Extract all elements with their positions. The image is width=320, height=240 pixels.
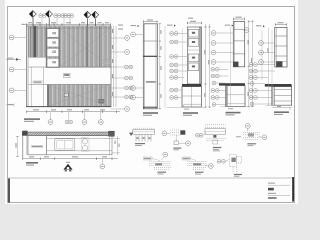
recessed box in lower hatch [99,99,104,103]
left callout circle 3 [9,88,14,93]
plan right dim string [112,138,120,140]
plan wall hatch band [22,132,112,136]
right leader lines and callouts of elevation [111,38,124,109]
section3 title [226,112,241,114]
dimension text smudges [22,22,110,25]
elevation bottom dimension line [26,111,120,113]
detail 5 counter edge detail [143,152,171,174]
section2 top dim [187,22,202,24]
drawer box 4 [47,58,59,67]
callout circle pair A [39,14,43,18]
title strip divider [8,177,295,179]
elevation title text [24,118,40,120]
elevation body outline [26,26,111,107]
callout circle pair D [67,14,71,18]
sheet number A-XX [268,188,274,191]
sink [55,139,75,151]
section2 left boundary line [164,26,166,108]
top dimension line [24,24,111,26]
elevation marker diamond 4 [92,11,99,26]
bottom callout circles row [48,120,53,125]
wall end block left [22,131,27,136]
diagonal brace lines [60,28,111,67]
section4 top-left callout [244,28,249,33]
level marker left of section4 [256,25,265,27]
elevation marker diamond 2 [46,11,53,26]
upper-left hatch panel [29,28,46,57]
section3 left callouts [211,31,216,36]
refrigerator box [28,136,47,155]
section2 floor line [167,106,205,108]
left callout circle 1 [9,35,14,40]
section3 tall cabinet [233,22,244,67]
callout circle pair B [54,14,58,18]
upper-right hatch panel [60,28,111,67]
level marker left of section2 [167,25,176,27]
section2 title [183,112,198,114]
drawer column [46,28,60,68]
faint fixtures in band [64,74,71,78]
wall end block right [109,131,115,136]
title block field line 1 [268,183,275,184]
counter label smudge [33,81,42,83]
section4 left boundary [261,30,263,80]
section4 tall cabinet [275,27,287,67]
section2 base cabinet [182,87,202,107]
section4 base cabinet drawers [272,87,292,106]
section3 base cabinet [226,86,245,107]
section4 title [274,111,289,113]
left callout circle 2 [9,67,14,72]
elevation bottom edge [26,106,111,108]
middle band lines [29,66,111,68]
plan title text [26,162,38,164]
plan bottom dimension [23,158,118,160]
drawer box 3 [47,48,59,57]
cooktop burners [82,139,87,144]
section3 right dim strings [248,20,250,107]
left margin level marker [6,58,21,60]
outlet box [64,93,68,96]
elevation marker diamond 1 [29,11,36,26]
section2 upper cabinet [187,27,201,84]
title block field line 2 [268,193,276,194]
level marker left of section1 [131,25,140,27]
section4 vertical dim between 3 and 4 [268,28,270,105]
section1 right dim string [159,24,161,109]
section3 counter band [219,83,245,85]
detail 3 shelf detail [196,125,226,151]
sheet [5,0,298,204]
fridge enclosure side wall [22,136,24,158]
counter lines [47,137,112,139]
sheet border [8,7,295,203]
section2 upper boxes [188,29,199,37]
plan callout circle [100,164,105,169]
section2 left callout pairs [170,32,174,36]
drawer box 2 [47,38,59,47]
scale text [268,197,277,199]
detail 1 sill detail [129,128,155,146]
drawing title bubble [63,162,72,172]
title strip left bar [8,179,10,203]
section3 top dim [233,18,245,20]
section4 right dim [289,107,291,110]
right callout circles [125,36,130,41]
section1 title [143,112,158,114]
lower hatch panel [47,85,111,107]
section1 tall cabinet [143,24,157,109]
section3 dark lower block [233,62,238,67]
section3 floor line [220,106,249,108]
left vertical dim string [16,136,18,156]
title strip right bar [292,177,294,202]
upper hatch full-width strip [29,26,111,29]
section4 top dim [275,24,287,26]
detail 4 blocking detail [236,124,267,147]
section2 counter band [182,84,202,87]
section2 right dim strings [205,24,207,108]
detail 7 corner detail [217,154,242,176]
elevation vertical dim string [113,26,115,107]
detail 6 counter edge detail 2 [182,157,213,175]
section4 left callouts [249,63,253,67]
callout circle pair C [61,14,65,18]
level marker left of section3 [225,25,234,27]
section4 dark lower block [276,61,282,67]
section1 left callouts [131,32,136,37]
left margin level note [7,104,14,105]
grid line dark band [33,26,36,57]
elevation marker diamond 3 [84,11,91,26]
plan outline [28,136,112,155]
drawer box 1 [47,29,59,38]
detail 2 bracket detail [162,130,190,150]
section4 floor line [266,104,292,106]
section4 counter band [265,84,292,87]
section1 top dim [143,21,157,23]
